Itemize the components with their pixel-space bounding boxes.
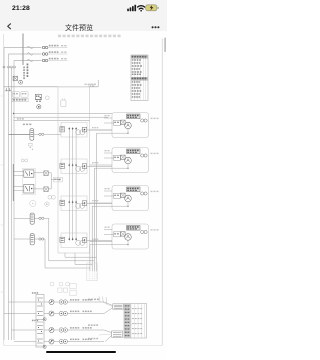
connector pair X2 bbox=[42, 53, 48, 56]
vertical harness label 1 bbox=[23, 67, 25, 80]
connector pinout table TB2 bbox=[124, 304, 147, 339]
wire coil T3 ground return bbox=[92, 202, 128, 207]
wire crank sensor to ECM bbox=[44, 133, 61, 135]
sensor plug ring bbox=[37, 105, 41, 109]
wire feed ECM pin 3 bbox=[14, 120, 91, 122]
ECM control unit U1 outline bbox=[58, 87, 90, 253]
injector row 1 feed wire bbox=[9, 301, 37, 303]
status and navigation bar background bbox=[0, 0, 167, 31]
connector pair X12 bbox=[54, 339, 68, 343]
wire coil return 2 bbox=[93, 168, 95, 280]
driver A3 input plug bbox=[60, 200, 65, 205]
cellular signal bars bbox=[127, 5, 136, 11]
injector row 2 feed wire bbox=[4, 313, 36, 315]
coil T4 connector bbox=[114, 232, 121, 237]
vertical harness label 2 bbox=[27, 64, 29, 78]
connector block CB1 label bbox=[32, 292, 38, 294]
coil T2 output terminal bbox=[141, 154, 148, 157]
ground G3 stud bbox=[9, 88, 12, 91]
coil T1 connector bbox=[114, 120, 121, 125]
node splice S2 on bus 2 bbox=[8, 66, 10, 68]
connector ring terminal G1 bbox=[19, 80, 23, 84]
wire loop crossing mark row 2 bbox=[27, 53, 33, 56]
coil T4 pin numbers bbox=[92, 227, 110, 240]
injector row 2 valve bbox=[44, 311, 54, 316]
status bar icons: signal wifi battery bbox=[0, 0, 167, 16]
page bottom border bbox=[4, 345, 162, 347]
ECM label text bbox=[85, 84, 97, 85]
coil T4 label plate bbox=[127, 226, 141, 231]
wire coil return 4 bbox=[89, 244, 91, 280]
injector connector block CB1 bbox=[36, 295, 44, 320]
connector pair X9 bbox=[54, 300, 68, 304]
splice termination block dashed box bbox=[87, 263, 98, 281]
harness branch ticks bbox=[99, 297, 107, 305]
fuse box label plate bbox=[12, 98, 28, 101]
ignition driver box A2 bbox=[61, 159, 87, 174]
connector eyelet E2 bbox=[45, 202, 49, 206]
ECM internal connector bbox=[61, 98, 66, 106]
coil T1 output terminal bbox=[141, 119, 148, 122]
wire sensor bus elbow 1 bbox=[65, 253, 97, 257]
bus reinforcement bbox=[12, 164, 14, 201]
connector C1 eyelet bbox=[45, 96, 49, 100]
connector pair X10 bbox=[54, 311, 68, 315]
driver A1 junction dots bbox=[69, 127, 77, 130]
coil T1 winding bbox=[125, 122, 132, 129]
page margin tick 1 bbox=[1, 95, 3, 97]
injector connector block CB2 bbox=[36, 322, 44, 347]
row 1 wire color label bbox=[70, 299, 92, 301]
wire power bus 2 bbox=[8, 54, 10, 340]
wire power bus 1 bbox=[3, 48, 5, 341]
idle connector plugs bbox=[58, 283, 76, 295]
wire loop crossing mark row 1 bbox=[27, 46, 33, 49]
wire loop crossing mark row 3 bbox=[27, 59, 33, 62]
relay group enclosure bbox=[22, 168, 35, 194]
harness connector CN2 bbox=[112, 331, 123, 338]
page margin tick 4 bbox=[1, 291, 3, 293]
driver A3 output stage bbox=[82, 201, 86, 206]
wire coil return 3 bbox=[91, 206, 93, 281]
junction ring J3 bbox=[43, 345, 46, 348]
navigation title bbox=[0, 23, 158, 33]
wifi icon bbox=[138, 6, 145, 12]
wire power bus 4 bbox=[13, 61, 15, 341]
coil T4 pin stubs bbox=[90, 230, 114, 242]
injector row 3 feed wire bbox=[12, 329, 37, 331]
wire battery feed B+ bbox=[4, 47, 42, 49]
node splice S4 on bus 4 bbox=[14, 66, 16, 68]
wire accessory feed 61 bbox=[14, 60, 42, 62]
coil T3 pin stubs bbox=[90, 191, 114, 203]
connector block CB2 label bbox=[32, 320, 38, 322]
harness bundle label H1 bbox=[88, 299, 99, 301]
ignition coil module T1 outline bbox=[112, 113, 149, 138]
wire row 1 to harness bbox=[68, 301, 105, 303]
home indicator bbox=[46, 351, 116, 354]
small service connector bbox=[29, 143, 33, 150]
crank sensor label bbox=[23, 124, 32, 126]
node splice S1 on bus 1 bbox=[3, 66, 5, 68]
ignition coil module T2 outline bbox=[112, 148, 149, 173]
net label text row 2 bbox=[48, 51, 68, 54]
driver A1 coil rings bbox=[76, 130, 85, 135]
wire relay K3 output bbox=[34, 172, 44, 174]
coil T4 side label bbox=[151, 229, 159, 230]
coil T1 pin numbers bbox=[92, 115, 110, 128]
driver A4 coil rings bbox=[76, 240, 85, 245]
connector pair X3 bbox=[42, 59, 48, 62]
coil T2 winding bbox=[125, 157, 132, 164]
crank sensor connector body bbox=[30, 129, 34, 141]
coil T3 label plate bbox=[127, 187, 141, 192]
net label text row 1 bbox=[48, 45, 68, 48]
wire crank sensor feed bbox=[9, 133, 30, 135]
coil T2 fuse element bbox=[121, 155, 126, 160]
relay K3 bbox=[24, 170, 34, 177]
wire driver chain 1 bbox=[69, 129, 76, 166]
junction block J1 bbox=[35, 94, 41, 102]
injector row 4 feed wire bbox=[14, 341, 36, 343]
coil T2 pin numbers bbox=[92, 150, 110, 163]
wire relay to ECM bbox=[51, 179, 60, 180]
connector eyelet E1 bbox=[30, 200, 36, 206]
wire fuse tie bbox=[48, 173, 51, 189]
driver A4 output stage bbox=[82, 238, 86, 243]
ground G2 stud bbox=[5, 88, 8, 91]
injector row 4 valve bbox=[44, 339, 54, 344]
coil T4 fuse element bbox=[121, 232, 126, 237]
ignition coil module T4 outline bbox=[112, 224, 149, 249]
relay output label box bbox=[53, 177, 62, 182]
harness connector CN1 bbox=[113, 304, 124, 309]
coil T1 label plate bbox=[127, 114, 141, 119]
connector pinout table TB1 bbox=[131, 55, 148, 101]
ECM pin stubs bbox=[89, 80, 98, 87]
status bar clock bbox=[12, 5, 30, 12]
wire ignition feed 15 bbox=[9, 53, 42, 55]
page margin tick 3 bbox=[1, 224, 3, 226]
wire bus to relay K3 bbox=[14, 172, 24, 176]
node splice S3 on bus 3 bbox=[11, 66, 13, 68]
harness merge node H1 bbox=[104, 302, 113, 314]
coil T2 pin stubs bbox=[90, 153, 114, 165]
navigation more button bbox=[148, 20, 164, 32]
sensor B2 body bbox=[30, 234, 34, 245]
coil T4 winding bbox=[125, 234, 132, 241]
driver A3 coil rings bbox=[76, 203, 85, 208]
connector pair X7 bbox=[34, 217, 44, 219]
wire power bus 3 bbox=[11, 67, 13, 340]
wire main rail to ECM bbox=[4, 86, 98, 88]
wire row 3 to harness bbox=[68, 329, 105, 331]
sensor B2 feed wire bbox=[14, 238, 30, 240]
harness merge node H2 bbox=[99, 330, 112, 342]
wire coil T1 ground return bbox=[97, 129, 129, 134]
net label text row 3 bbox=[48, 58, 68, 61]
coil T3 side label bbox=[151, 191, 159, 192]
ignition driver box A1 bbox=[61, 123, 87, 138]
white document sheet bbox=[0, 31, 167, 360]
engine harness trunk line bbox=[23, 34, 24, 66]
wire coil feed 1 bbox=[87, 129, 112, 131]
wire feed ECM pin 2 bbox=[14, 116, 109, 118]
feed wire label bbox=[17, 118, 24, 120]
harness bundle label H2b bbox=[88, 338, 98, 340]
fuse F2 bbox=[44, 171, 48, 176]
wire driver chain 2 bbox=[69, 165, 76, 202]
wire coil feed 4 bbox=[87, 240, 112, 242]
injector row 3 valve bbox=[44, 328, 54, 333]
wire sensor bus elbow 2 bbox=[49, 260, 95, 262]
page margin tick 2 bbox=[1, 164, 3, 166]
coil T2 connector bbox=[114, 155, 121, 160]
wire coil return 1 bbox=[96, 133, 98, 280]
relay K4 bbox=[24, 184, 34, 193]
ignition driver box A3 bbox=[61, 196, 87, 211]
page right border bbox=[161, 39, 163, 346]
wire sensor B1 signal bbox=[44, 218, 49, 260]
row 3 wire color label bbox=[70, 327, 92, 329]
wire coil T4 ground return bbox=[90, 240, 128, 245]
wire sensor bus elbow 3 bbox=[75, 253, 92, 264]
wiring diagram drawing bbox=[0, 0, 167, 360]
wire sensor bus elbow 4 bbox=[45, 267, 90, 269]
wire relay K4 output bbox=[34, 188, 44, 190]
harness bundle label H2 bbox=[88, 324, 98, 326]
navigation back chevron bbox=[0, 16, 20, 32]
coil T2 label plate bbox=[127, 149, 141, 154]
wire driver chain 3 bbox=[69, 202, 76, 239]
coil T1 fuse element bbox=[121, 120, 126, 125]
page left border bbox=[3, 34, 5, 346]
connector pair X5 bbox=[21, 159, 28, 162]
driver A1 input plug bbox=[60, 127, 65, 132]
wire bus to relay K4 bbox=[14, 186, 24, 190]
idle connector rings bbox=[50, 282, 70, 286]
driver A2 coil rings bbox=[76, 166, 85, 171]
driver A2 junction dots bbox=[69, 164, 77, 167]
driver A2 input plug bbox=[60, 163, 65, 168]
scrollbar thumb bbox=[164, 38, 166, 53]
wire coil feed 3 bbox=[87, 203, 112, 205]
driver A3 junction dots bbox=[69, 201, 77, 204]
coil T1 side label bbox=[151, 118, 159, 119]
connector pair X1 bbox=[42, 46, 48, 49]
coil T3 winding bbox=[125, 195, 132, 202]
fuse F3 bbox=[44, 187, 48, 192]
driver A4 input plug bbox=[60, 237, 65, 242]
coil T2 side label bbox=[151, 153, 159, 154]
connector pair X11 bbox=[54, 328, 68, 332]
wire coil feed 2 bbox=[87, 166, 112, 168]
ignition coil module T3 outline bbox=[112, 186, 149, 211]
sensor B1 body bbox=[30, 213, 34, 224]
wire row 2 to harness bbox=[68, 313, 105, 315]
wire sensor B2 signal bbox=[44, 239, 45, 268]
coil T3 output terminal bbox=[141, 192, 148, 195]
coil T4 output terminal bbox=[141, 230, 148, 233]
coil T3 pin numbers bbox=[92, 188, 110, 201]
schematic page title text bbox=[58, 35, 121, 38]
wire row 4 to harness bbox=[68, 341, 105, 343]
driver A1 output stage bbox=[82, 127, 86, 132]
row 2 wire color label bbox=[70, 311, 92, 313]
driver A2 output stage bbox=[82, 164, 86, 169]
wire feed ECM pin 1 bbox=[14, 113, 113, 115]
feed wire junction dot bbox=[13, 113, 14, 114]
relay box K1 bbox=[12, 91, 19, 97]
driver A4 junction dots bbox=[69, 238, 77, 241]
relay box K2 bbox=[21, 91, 28, 97]
connector pair X4 bbox=[34, 133, 44, 135]
battery low-power charging bbox=[146, 5, 158, 11]
coil T1 pin stubs bbox=[90, 118, 114, 130]
wire coil T2 ground return bbox=[94, 164, 128, 169]
row 4 wire color label bbox=[70, 339, 92, 341]
connector pair X6 bbox=[48, 195, 55, 199]
ignition driver box A4 bbox=[61, 233, 87, 248]
coil T3 fuse element bbox=[121, 193, 126, 198]
junction ring J2 bbox=[43, 318, 46, 321]
fuse F1 bbox=[13, 76, 17, 80]
injector row 1 valve bbox=[44, 300, 54, 305]
sensor B1 feed wire bbox=[14, 217, 30, 219]
coil T3 connector bbox=[114, 193, 121, 198]
connector pair X8 bbox=[34, 238, 44, 240]
